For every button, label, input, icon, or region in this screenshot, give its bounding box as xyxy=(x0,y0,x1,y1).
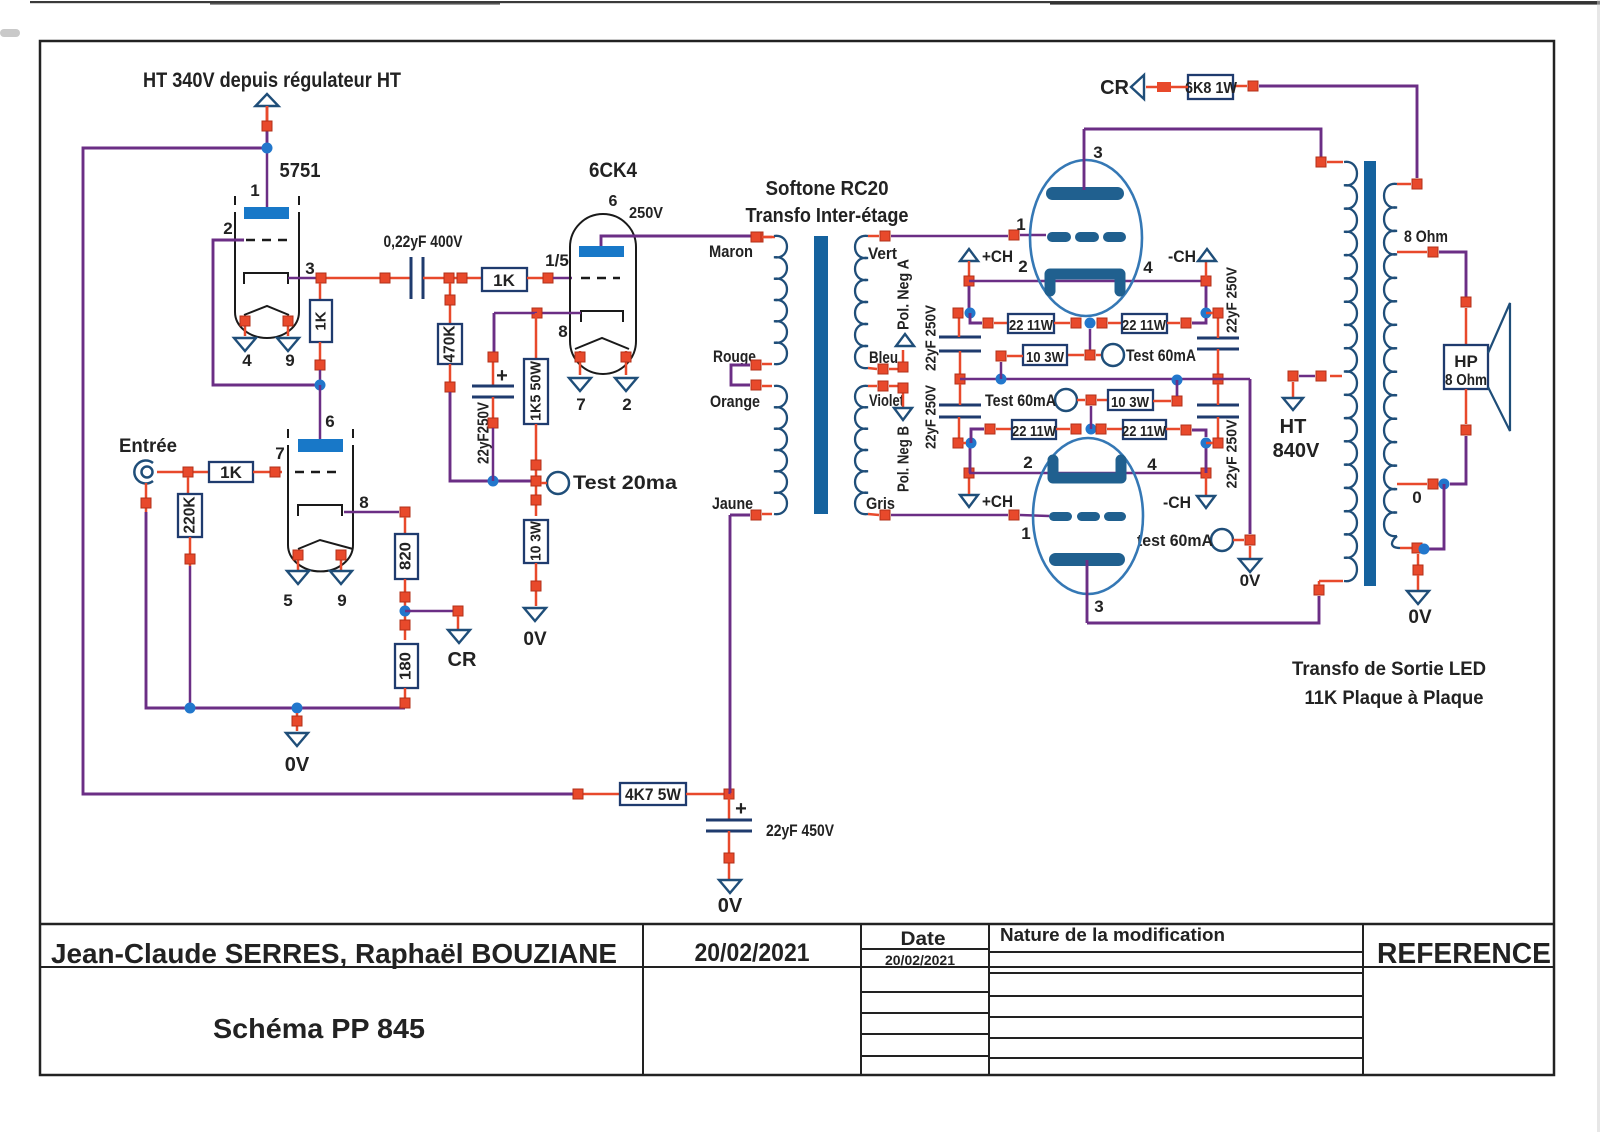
svg-text:2: 2 xyxy=(1023,453,1032,472)
svg-text:Maron: Maron xyxy=(709,242,753,261)
svg-text:0V: 0V xyxy=(1408,607,1432,628)
svg-text:+: + xyxy=(735,798,747,820)
svg-text:10 3W: 10 3W xyxy=(528,520,545,561)
svg-text:Date: Date xyxy=(901,929,946,950)
svg-text:2: 2 xyxy=(622,395,631,414)
svg-text:2: 2 xyxy=(1018,257,1027,276)
svg-text:Vert: Vert xyxy=(868,244,897,263)
svg-text:1K: 1K xyxy=(220,463,242,482)
svg-text:Test 60mA: Test 60mA xyxy=(985,391,1056,410)
svg-text:22yF 450V: 22yF 450V xyxy=(766,821,835,840)
svg-text:7: 7 xyxy=(576,395,585,414)
svg-text:Softone RC20: Softone RC20 xyxy=(766,178,889,200)
svg-text:+: + xyxy=(496,365,508,387)
svg-text:840V: 840V xyxy=(1273,440,1320,462)
svg-text:1K: 1K xyxy=(493,271,515,290)
svg-text:4: 4 xyxy=(1147,455,1157,474)
svg-text:6CK4: 6CK4 xyxy=(589,159,637,182)
svg-text:0V: 0V xyxy=(718,895,743,917)
svg-text:3: 3 xyxy=(305,259,314,278)
svg-text:20/02/2021: 20/02/2021 xyxy=(695,939,810,967)
svg-text:CR: CR xyxy=(448,649,477,671)
svg-text:8 Ohm: 8 Ohm xyxy=(1404,227,1448,246)
svg-text:220K: 220K xyxy=(182,496,199,533)
svg-text:22 11W: 22 11W xyxy=(1122,423,1167,440)
svg-text:250V: 250V xyxy=(629,205,663,222)
svg-text:8: 8 xyxy=(558,322,567,341)
svg-text:-CH: -CH xyxy=(1168,247,1196,266)
svg-text:22yF 250V: 22yF 250V xyxy=(923,305,940,371)
svg-text:1: 1 xyxy=(1016,215,1025,234)
svg-text:+CH: +CH xyxy=(982,247,1013,266)
svg-text:6: 6 xyxy=(325,412,334,431)
svg-text:4: 4 xyxy=(242,351,252,370)
svg-text:+CH: +CH xyxy=(982,492,1013,511)
svg-text:HT: HT xyxy=(1280,416,1307,438)
svg-text:6K8 1W: 6K8 1W xyxy=(1185,80,1238,97)
svg-text:5751: 5751 xyxy=(280,160,321,182)
svg-text:Entrée: Entrée xyxy=(119,436,177,457)
svg-text:470K: 470K xyxy=(442,325,459,362)
svg-text:Transfo de Sortie LED: Transfo de Sortie LED xyxy=(1292,659,1486,680)
svg-text:Jaune: Jaune xyxy=(712,494,753,513)
svg-text:0V: 0V xyxy=(285,754,310,776)
svg-text:10 3W: 10 3W xyxy=(1111,394,1150,411)
svg-text:0V: 0V xyxy=(523,629,547,650)
svg-text:-CH: -CH xyxy=(1163,493,1191,512)
svg-text:22 11W: 22 11W xyxy=(1012,423,1057,440)
svg-text:9: 9 xyxy=(285,351,294,370)
svg-text:2: 2 xyxy=(223,219,232,238)
svg-text:Nature de la modification: Nature de la modification xyxy=(1000,925,1225,945)
svg-text:22 11W: 22 11W xyxy=(1122,317,1167,334)
svg-text:Pol. Neg B: Pol. Neg B xyxy=(896,426,913,492)
svg-text:1: 1 xyxy=(250,181,259,200)
svg-text:22yF 250V: 22yF 250V xyxy=(923,385,940,449)
svg-text:Test 20ma: Test 20ma xyxy=(573,473,677,494)
svg-text:Orange: Orange xyxy=(710,392,760,411)
svg-text:20/02/2021: 20/02/2021 xyxy=(885,952,955,968)
svg-text:CR: CR xyxy=(1100,77,1129,99)
svg-text:22 11W: 22 11W xyxy=(1009,317,1054,334)
svg-text:Pol. Neg A: Pol. Neg A xyxy=(896,259,913,330)
svg-text:22yF 250V: 22yF 250V xyxy=(1224,420,1241,489)
svg-text:10 3W: 10 3W xyxy=(1026,349,1065,366)
svg-text:Transfo Inter-étage: Transfo Inter-étage xyxy=(746,205,909,227)
svg-text:180: 180 xyxy=(398,652,415,680)
svg-text:5: 5 xyxy=(283,591,292,610)
svg-text:8: 8 xyxy=(359,493,368,512)
svg-text:9: 9 xyxy=(337,591,346,610)
svg-text:1K5 50W: 1K5 50W xyxy=(528,360,545,421)
svg-text:4: 4 xyxy=(1143,258,1153,277)
svg-text:0V: 0V xyxy=(1240,571,1261,590)
svg-text:Rouge: Rouge xyxy=(713,347,756,366)
svg-text:6: 6 xyxy=(609,193,618,210)
svg-text:Jean-Claude SERRES, Raphaël BO: Jean-Claude SERRES, Raphaël BOUZIANE xyxy=(51,938,617,969)
svg-text:HP: HP xyxy=(1454,352,1478,371)
svg-text:Schéma PP 845: Schéma PP 845 xyxy=(213,1013,425,1044)
svg-text:3: 3 xyxy=(1094,597,1103,616)
svg-text:REFERENCE: REFERENCE xyxy=(1377,938,1551,970)
svg-text:0: 0 xyxy=(1412,488,1421,507)
svg-text:8 Ohm: 8 Ohm xyxy=(1445,372,1487,389)
svg-text:4K7 5W: 4K7 5W xyxy=(625,785,682,804)
svg-text:1/5: 1/5 xyxy=(545,251,569,270)
svg-text:1K: 1K xyxy=(313,311,330,330)
svg-text:820: 820 xyxy=(398,542,415,570)
svg-text:11K Plaque à Plaque: 11K Plaque à Plaque xyxy=(1305,688,1484,709)
svg-text:0,22yF 400V: 0,22yF 400V xyxy=(384,232,464,251)
svg-text:22yF250V: 22yF250V xyxy=(476,402,493,464)
svg-text:Test 60mA: Test 60mA xyxy=(1126,346,1196,365)
svg-text:test 60mA: test 60mA xyxy=(1137,531,1213,550)
svg-text:3: 3 xyxy=(1093,143,1102,162)
svg-text:22yF 250V: 22yF 250V xyxy=(1224,267,1241,333)
svg-text:HT 340V depuis régulateur HT: HT 340V depuis régulateur HT xyxy=(143,69,401,92)
svg-text:1: 1 xyxy=(1021,524,1030,543)
svg-text:7: 7 xyxy=(275,444,284,463)
